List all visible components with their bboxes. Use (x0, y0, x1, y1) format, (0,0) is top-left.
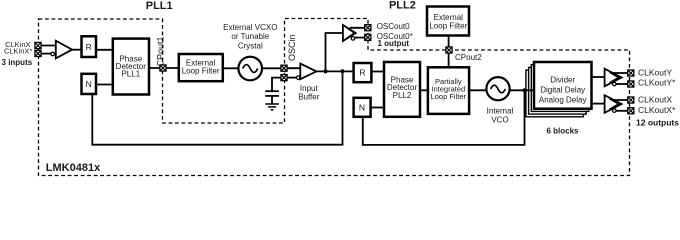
svg-text:OSCout0: OSCout0 (377, 22, 410, 31)
svg-text:CLKoutX: CLKoutX (638, 95, 672, 105)
svg-text:N: N (359, 102, 365, 112)
svg-text:OSCin: OSCin (287, 34, 297, 61)
svg-text:Internal: Internal (487, 107, 514, 116)
svg-text:or Tunable: or Tunable (231, 32, 269, 41)
svg-text:External VCXO: External VCXO (223, 23, 277, 32)
svg-text:Crystal: Crystal (238, 41, 263, 50)
svg-text:External: External (434, 13, 464, 22)
svg-text:Input: Input (300, 84, 319, 93)
svg-text:Loop Filter: Loop Filter (182, 67, 220, 76)
svg-text:Digital Delay: Digital Delay (540, 86, 585, 95)
svg-text:N: N (86, 79, 92, 89)
svg-text:LMK0481x: LMK0481x (46, 162, 101, 174)
svg-text:R: R (359, 68, 365, 78)
svg-text:Buffer: Buffer (298, 93, 320, 102)
svg-text:CLKoutY*: CLKoutY* (638, 77, 676, 87)
svg-text:12 outputs: 12 outputs (636, 117, 679, 127)
svg-text:CPout1: CPout1 (155, 36, 165, 66)
svg-text:Loop Filter: Loop Filter (429, 22, 467, 31)
svg-text:R: R (86, 42, 92, 52)
svg-text:CLKoutY: CLKoutY (638, 67, 672, 77)
svg-text:1 output: 1 output (378, 39, 410, 48)
svg-text:CLKoutX*: CLKoutX* (638, 105, 676, 115)
svg-text:Loop Filter: Loop Filter (431, 92, 467, 101)
svg-text:PLL1: PLL1 (146, 0, 173, 12)
svg-text:Divider: Divider (550, 76, 575, 85)
svg-text:Analog Delay: Analog Delay (539, 96, 587, 105)
svg-text:VCO: VCO (491, 116, 508, 125)
svg-text:3 inputs: 3 inputs (2, 58, 33, 67)
svg-text:PLL1: PLL1 (121, 69, 140, 78)
svg-text:PLL2: PLL2 (389, 0, 416, 12)
svg-text:CPout2: CPout2 (455, 53, 482, 62)
svg-text:PLL2: PLL2 (393, 91, 412, 100)
svg-text:CLKinX*: CLKinX* (4, 46, 32, 55)
svg-text:6 blocks: 6 blocks (546, 127, 579, 136)
